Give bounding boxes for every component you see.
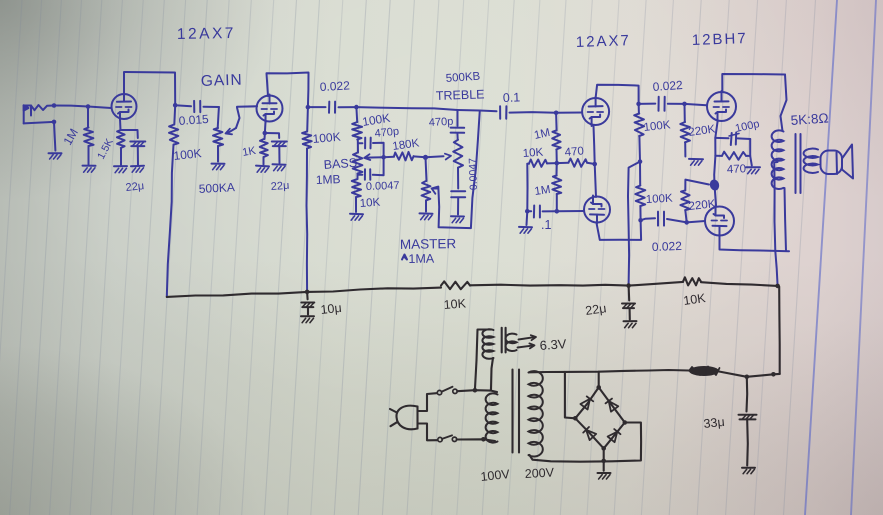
ground 500KA bbox=[212, 164, 225, 170]
label 0.022 bbox=[319, 78, 350, 94]
ink blot cathode bbox=[709, 178, 721, 191]
svg-text:0.015: 0.015 bbox=[178, 112, 209, 128]
capacitor 22u bypass V2 bbox=[272, 142, 287, 164]
label 1M PI upper bbox=[533, 127, 551, 142]
resistor 1M PI lower bbox=[552, 163, 561, 211]
svg-text:12BH7: 12BH7 bbox=[692, 30, 748, 49]
svg-text:0.022: 0.022 bbox=[652, 239, 683, 254]
wire bridge minus bbox=[603, 448, 605, 470]
wire rail right bbox=[629, 282, 683, 286]
wire tone bus bbox=[356, 107, 457, 110]
ground 22u V2 bbox=[273, 164, 286, 170]
svg-text:1M: 1M bbox=[534, 184, 551, 198]
svg-text:33μ: 33μ bbox=[703, 415, 725, 431]
resistor 100K plate load 1 bbox=[167, 105, 179, 297]
label 220K lower bbox=[688, 198, 716, 213]
arrow 6.3V a bbox=[519, 335, 537, 340]
ground 22u bbox=[624, 321, 637, 328]
svg-text:10μ: 10μ bbox=[320, 301, 342, 317]
capacitor 0.022 lower PP bbox=[641, 212, 687, 226]
junction V2 cathode bbox=[263, 131, 268, 136]
label 470 cathode bbox=[727, 163, 747, 176]
choke filter bbox=[689, 366, 720, 376]
junction PI B+ node bbox=[638, 159, 643, 164]
junction input node bbox=[52, 103, 91, 124]
svg-text:470: 470 bbox=[727, 163, 747, 176]
capacitor 10u rail bbox=[301, 292, 314, 315]
transformer heater winding 6.3V bbox=[482, 329, 493, 359]
svg-text:500KB: 500KB bbox=[445, 71, 481, 85]
label MASTER bbox=[400, 236, 457, 252]
wire heater riser bbox=[475, 330, 492, 391]
resistor 470 tail bbox=[557, 159, 595, 167]
label 100K tone bbox=[361, 111, 391, 129]
label 470 tail bbox=[564, 145, 584, 159]
capacitor 22u rail bbox=[622, 286, 635, 320]
wire mains upper bbox=[418, 393, 437, 411]
label 22u rail bbox=[584, 301, 607, 318]
resistor 1K cathode V2 bbox=[260, 122, 268, 165]
label 470p bass bbox=[374, 125, 400, 139]
junction bridge left bbox=[573, 416, 578, 421]
junction lower grid node bbox=[684, 220, 689, 225]
wiper gain pot bbox=[226, 108, 240, 135]
ground 1K bbox=[256, 166, 269, 173]
junction V2 plate node bbox=[306, 105, 311, 110]
capacitor 33u bbox=[739, 377, 757, 466]
svg-text:1K: 1K bbox=[241, 145, 257, 159]
capacitor 0.015 coupling bbox=[175, 101, 219, 112]
capacitor 0.0047 treble bbox=[451, 191, 465, 214]
wire tail left down bbox=[526, 164, 528, 212]
label 0.015 bbox=[178, 112, 209, 128]
svg-text:100K: 100K bbox=[646, 193, 674, 206]
label 12BH7 bbox=[692, 30, 748, 49]
wire rail mid bbox=[470, 284, 629, 287]
ground jack bbox=[49, 153, 62, 159]
junction heater tap bbox=[473, 388, 478, 393]
svg-text:12AX7: 12AX7 bbox=[576, 32, 632, 51]
junction V1 plate node bbox=[173, 103, 178, 108]
label 1M bbox=[60, 126, 80, 147]
label GAIN bbox=[201, 72, 243, 90]
wire bridge edge TR bbox=[599, 387, 625, 422]
wire to V2 grid bbox=[237, 105, 257, 108]
wire tail ground bbox=[526, 211, 529, 225]
junction 33u node bbox=[745, 372, 776, 379]
svg-text:22μ: 22μ bbox=[270, 180, 289, 193]
svg-text:100K: 100K bbox=[173, 146, 202, 163]
resistor 100K plate load 2 bbox=[302, 107, 312, 292]
svg-text:BASS: BASS bbox=[323, 156, 357, 172]
label 0.0047 bass bbox=[366, 180, 400, 193]
svg-text:GAIN: GAIN bbox=[201, 72, 243, 90]
wire secondary top bbox=[530, 370, 690, 372]
svg-text:470p: 470p bbox=[374, 125, 400, 139]
svg-text:10K: 10K bbox=[443, 296, 467, 312]
wire to V3 grid bbox=[556, 112, 582, 114]
resistor 100K PI plate upper bbox=[634, 104, 644, 162]
resistor 220K upper bbox=[680, 104, 690, 157]
label 22u bbox=[125, 180, 145, 194]
wire bridge AC2 bbox=[530, 423, 642, 462]
label 10K rail A bbox=[443, 296, 467, 312]
label 0.1 bbox=[503, 90, 521, 105]
capacitor 0.1 tail bbox=[527, 206, 557, 218]
junction primary bottom bbox=[481, 437, 486, 442]
wire mains lower bbox=[418, 424, 438, 441]
wire PI cathodes bbox=[594, 126, 597, 197]
resistor 470 cathode bbox=[715, 152, 750, 160]
label 0.0047 treble bbox=[467, 158, 480, 191]
label 100p bbox=[734, 118, 760, 135]
diode D3 bbox=[583, 427, 596, 440]
tube V4 12AX7 PI lower bbox=[584, 196, 610, 224]
transformer secondary 200V bbox=[529, 371, 543, 456]
label 100K plate 2 bbox=[312, 130, 341, 146]
resistor 1M grid leak bbox=[84, 107, 94, 165]
resistor 100K treble slope bbox=[352, 107, 362, 153]
wire master to 0.1 bbox=[458, 110, 497, 111]
svg-text:100K: 100K bbox=[312, 130, 341, 146]
wire cathode to cap bbox=[121, 130, 138, 138]
transformer OT core bbox=[796, 134, 801, 193]
junction bridge top bbox=[596, 385, 601, 390]
transformer main core bbox=[513, 370, 520, 453]
svg-text:6.3V: 6.3V bbox=[539, 336, 567, 353]
label 500KA bbox=[198, 180, 235, 196]
wiper master pot bbox=[432, 111, 480, 229]
svg-text:MASTER: MASTER bbox=[400, 236, 457, 252]
resistor 10K rail A bbox=[441, 281, 470, 289]
svg-text:0.1: 0.1 bbox=[503, 90, 521, 105]
diode D1 bbox=[580, 396, 593, 409]
transformer OT secondary bbox=[804, 149, 818, 173]
capacitor 0.022 coupling bbox=[308, 102, 357, 113]
ground PI tail bbox=[519, 227, 532, 233]
ground 22u V1 bbox=[131, 166, 144, 173]
capacitor 22u bypass V1 bbox=[130, 142, 145, 166]
transformer heater core bbox=[502, 328, 506, 353]
wire to V5 grid bbox=[685, 104, 707, 105]
junction upper coupling node bbox=[636, 102, 641, 107]
label 220K upper bbox=[688, 123, 717, 139]
potentiometer BASS 1MB bbox=[353, 153, 363, 179]
svg-text:5K:8Ω: 5K:8Ω bbox=[790, 110, 829, 128]
wire V4 plate bbox=[597, 220, 642, 240]
wire V5 V6 cathodes bbox=[714, 122, 717, 206]
ground 220K upper bbox=[689, 159, 703, 165]
label 10K rail B bbox=[682, 291, 707, 308]
wire cathode to cap V2 bbox=[265, 133, 279, 138]
junction rail PI bbox=[626, 283, 631, 288]
junction master node bbox=[423, 155, 428, 160]
wire bridge edge BR bbox=[604, 423, 625, 449]
label 1M PI lower bbox=[534, 184, 551, 198]
label 12AX7 PI bbox=[576, 32, 632, 51]
ground bridge bbox=[598, 473, 611, 479]
label 6.3V bbox=[539, 336, 567, 353]
switch lower bbox=[438, 435, 457, 441]
transformer primary 100V bbox=[486, 393, 498, 442]
junction rail OT bbox=[775, 284, 780, 289]
input jack J1 bbox=[24, 105, 54, 123]
label 5K:8ohm bbox=[790, 110, 829, 128]
tube V1 12AX7 first triode bbox=[112, 93, 137, 120]
potentiometer TREBLE 500KB bbox=[453, 140, 463, 189]
label BASS bbox=[323, 156, 357, 172]
junction tail cap bbox=[525, 209, 530, 214]
capacitor 470p bass bridge top bbox=[358, 138, 384, 158]
svg-text:TREBLE: TREBLE bbox=[436, 87, 485, 103]
label 10u bbox=[320, 301, 342, 317]
junction bass bridge bbox=[381, 155, 386, 160]
svg-text:0.022: 0.022 bbox=[652, 78, 683, 94]
label TREBLE bbox=[436, 87, 485, 103]
svg-text:22μ: 22μ bbox=[125, 180, 145, 194]
resistor 1.5K cathode bbox=[117, 119, 125, 165]
wire upper to primary bbox=[457, 390, 497, 392]
potentiometer 500KA gain bbox=[213, 107, 223, 162]
arrow 6.3V b bbox=[518, 343, 535, 348]
label 180K bbox=[392, 137, 421, 153]
diode D4 bbox=[608, 429, 621, 442]
transformer OT primary bbox=[772, 130, 784, 189]
heater secondary curl bbox=[505, 334, 516, 351]
wire lower to primary bbox=[457, 439, 495, 441]
ground 10K bass bbox=[350, 214, 363, 221]
label 1.5K bbox=[95, 137, 116, 162]
resistor 10K bass bottom bbox=[352, 179, 361, 212]
junction rail stage2 bbox=[305, 290, 310, 295]
label 22u V2 bbox=[270, 180, 289, 193]
wire jack sleeve down bbox=[54, 122, 55, 151]
ground 1M bbox=[83, 166, 96, 173]
svg-text:1MB: 1MB bbox=[316, 172, 341, 187]
label 100K PI upper bbox=[643, 119, 671, 134]
junction bridge right bbox=[623, 420, 628, 425]
svg-text:1MA: 1MA bbox=[408, 252, 435, 266]
wire OT bottom bbox=[785, 188, 787, 251]
wire bridge DC+ bbox=[598, 372, 600, 388]
wire V3 plate bbox=[596, 85, 639, 104]
label 100K plate 1 bbox=[173, 146, 202, 163]
wire V6 plate bbox=[720, 236, 790, 252]
capacitor 0.0047 bass bridge bottom bbox=[358, 157, 384, 180]
label 10K tail bbox=[522, 147, 544, 160]
junction PI tail top bbox=[555, 161, 560, 166]
junction bridge bottom bbox=[601, 446, 606, 451]
svg-text:10K: 10K bbox=[359, 197, 381, 210]
wire V4 grid bbox=[557, 210, 584, 212]
junction upper grid node bbox=[682, 102, 687, 107]
capacitor 0.022 upper PP bbox=[639, 97, 685, 111]
junction cathodes PI bbox=[592, 162, 597, 167]
svg-text:12AX7: 12AX7 bbox=[177, 25, 236, 43]
junction tone input bbox=[354, 105, 359, 110]
label 0.022 upper PP bbox=[652, 78, 683, 94]
label 0.022 lower PP bbox=[652, 239, 683, 254]
potentiometer MASTER 1MA bbox=[422, 157, 431, 211]
svg-text:200V: 200V bbox=[524, 465, 555, 481]
svg-text:0.022: 0.022 bbox=[319, 78, 350, 94]
resistor 180K bbox=[384, 152, 426, 161]
ground master bbox=[420, 213, 433, 219]
svg-text:470p: 470p bbox=[429, 116, 454, 129]
wire choke to node bbox=[719, 372, 780, 377]
wire to V6 grid bbox=[687, 221, 705, 222]
resistor 220K lower bbox=[680, 180, 709, 223]
svg-text:500KA: 500KA bbox=[198, 180, 235, 196]
junction lower coupling node bbox=[638, 218, 643, 223]
tube V3 12AX7 PI upper bbox=[582, 97, 609, 126]
junction bridge bottom cross bbox=[601, 459, 606, 464]
tube V2 12AX7 second triode bbox=[257, 95, 283, 123]
wire V5 plate to OT bbox=[722, 74, 785, 91]
wire jack to grid bbox=[54, 106, 111, 109]
label 12AX7 V1-V2 bbox=[177, 25, 236, 43]
wire B+ down feed bbox=[778, 287, 781, 374]
svg-text:22μ: 22μ bbox=[584, 301, 607, 318]
label 33u bbox=[703, 415, 725, 431]
wiper bass pot bbox=[364, 154, 383, 160]
wire V1 plate bbox=[124, 72, 175, 105]
ground 1.5K bbox=[114, 166, 127, 173]
wire OT riser bbox=[781, 75, 787, 132]
label 1MB bbox=[316, 172, 341, 187]
resistor 10K tail bbox=[527, 160, 557, 168]
wire heater return bbox=[491, 358, 493, 390]
tube V6 12BH7 lower bbox=[705, 206, 734, 237]
label 200V bbox=[524, 465, 555, 481]
wire B+ rail bbox=[167, 288, 441, 297]
wire bridge edge BL bbox=[575, 418, 603, 448]
ground cathode RC bbox=[746, 167, 760, 173]
label 0.1 tail bbox=[541, 218, 551, 232]
label 100K PI lower bbox=[646, 193, 674, 206]
capacitor 100p cathode bbox=[715, 133, 750, 146]
svg-text:.1: .1 bbox=[541, 218, 551, 232]
resistor 100K PI plate lower bbox=[635, 162, 645, 221]
wire OT center tap bbox=[774, 162, 777, 286]
switch upper bbox=[437, 387, 457, 395]
wire to treble wiper bbox=[426, 154, 452, 160]
svg-text:470: 470 bbox=[564, 145, 584, 159]
label 10K bass bbox=[359, 197, 381, 210]
svg-text:10K: 10K bbox=[522, 147, 544, 160]
capacitor 470p treble bbox=[451, 110, 465, 140]
ground treble bbox=[451, 216, 464, 223]
label 470p treble bbox=[429, 116, 454, 129]
diode D2 bbox=[606, 399, 619, 412]
capacitor 0.1 coupling bbox=[500, 106, 556, 118]
resistor 10K rail B bbox=[683, 277, 701, 285]
svg-text:0.0047: 0.0047 bbox=[366, 180, 400, 193]
junction V4 grid node bbox=[555, 209, 560, 214]
label 1MA bbox=[402, 252, 435, 266]
label 1K bbox=[241, 145, 257, 159]
wire rail end bbox=[701, 282, 778, 286]
tube V5 12BH7 upper bbox=[707, 91, 736, 122]
wire bridge AC1 bbox=[565, 372, 575, 418]
wire RC right side bbox=[750, 139, 752, 166]
resistor 1M PI upper bbox=[552, 113, 561, 163]
speaker bbox=[821, 145, 854, 179]
label 100V bbox=[480, 467, 511, 484]
wire bridge edge TL bbox=[575, 387, 598, 418]
wire V2 plate bbox=[267, 73, 309, 108]
wire PI B+ feed bbox=[628, 162, 640, 285]
mains plug bbox=[390, 406, 418, 430]
ground 33u bbox=[742, 468, 755, 474]
ground 10u bbox=[301, 316, 314, 323]
junction PI grid node bbox=[554, 111, 559, 116]
label 500KB bbox=[445, 71, 481, 85]
